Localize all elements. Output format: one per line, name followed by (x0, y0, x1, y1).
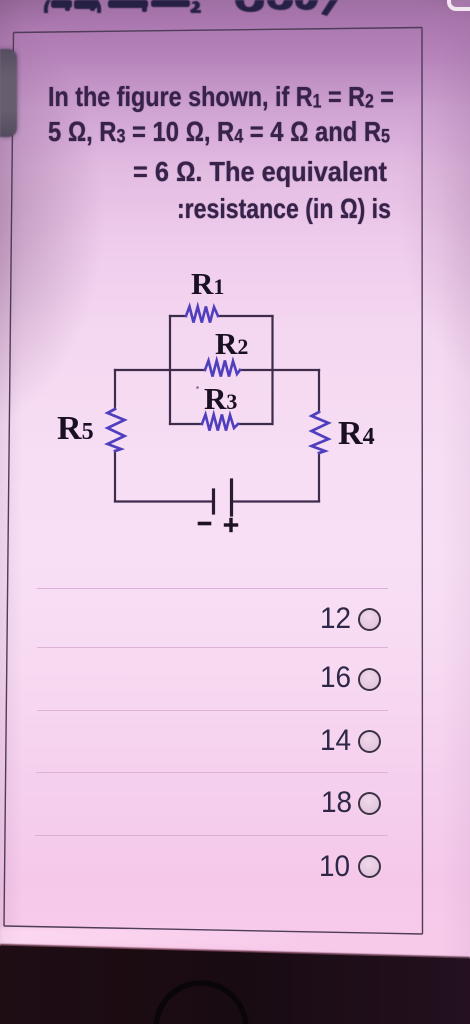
resistor R1 zigzag (186, 307, 218, 323)
resistor R5 zigzag (vertical) (108, 409, 125, 451)
right paren fragment (94, 0, 101, 13)
svg-text:R2: R2 (215, 326, 248, 361)
arabic word hump 2 (267, 0, 293, 10)
tick 1 (65, 0, 70, 11)
gray side tab (0, 49, 17, 137)
bottom phone bezel (0, 940, 470, 1024)
tick 2 (90, 0, 95, 11)
divider 3 (37, 710, 388, 711)
answer options (0, 0, 470, 1)
option 18 (321, 788, 352, 818)
option 12 (320, 604, 351, 634)
wire: bottom box branch after R3 (238, 423, 273, 425)
slash (321, 0, 338, 16)
svg-text:R3: R3 (204, 381, 237, 416)
option 16 (320, 663, 351, 693)
wire: left bus of parallel box (169, 316, 171, 424)
wire: right branch below R4 (318, 453, 320, 501)
wire: middle horizontal right of R2 (240, 369, 319, 371)
svg-text:R4: R4 (338, 415, 375, 452)
bar glyph 2 (74, 0, 97, 9)
wire: bottom box branch to R3 (170, 423, 202, 425)
left paren fragment (44, 0, 51, 13)
wire: right bus of parallel box (271, 316, 273, 424)
divider 4 (36, 772, 388, 773)
bezel body (0, 946, 470, 1024)
wire: middle horizontal left of R2 (115, 369, 205, 371)
bar glyph 4 (151, 0, 190, 7)
resistor R3 zigzag (202, 415, 238, 431)
bar glyph 1 (51, 0, 72, 8)
wire: top branch to R1 (170, 315, 186, 317)
battery positive plate (long) (230, 480, 233, 515)
card right border (421, 28, 424, 935)
battery minus sign (200, 522, 210, 526)
home button ring (156, 983, 246, 1024)
wire: bottom left to battery (115, 500, 211, 502)
bar glyph 3 (108, 0, 148, 8)
resistor R4 zigzag (vertical) (312, 412, 329, 453)
option 14 (320, 726, 351, 756)
arabic word hump 1 (235, 0, 264, 12)
card left border (4, 33, 14, 927)
bezel edge highlight line (0, 0, 1, 1)
wire: right branch down to R4 (318, 370, 320, 412)
top-right white cut-off box (447, 0, 470, 11)
divider 5 (35, 835, 388, 836)
wire: left branch below R5 (114, 451, 116, 501)
wire: left branch down to R5 (114, 370, 116, 409)
digit 2 fragment (190, 1, 201, 13)
card top border (14, 28, 423, 33)
resistor R2 zigzag (205, 361, 240, 377)
bright pink glow above bezel (0, 928, 330, 945)
top cut-off Arabic header text fragments (0, 0, 470, 40)
problem statement text (48, 83, 394, 117)
arabic word hump 3 (295, 0, 318, 10)
divider 1 (37, 588, 388, 589)
tick 3 (142, 1, 147, 12)
option 10 (319, 852, 350, 882)
battery negative plate (short) (212, 490, 215, 513)
svg-text:R5: R5 (57, 410, 94, 447)
divider 2 (37, 647, 388, 648)
wire: top branch after R1 (218, 315, 273, 317)
wire: bottom right from battery (234, 500, 320, 502)
battery plus sign (226, 520, 237, 531)
dust speck (196, 386, 199, 389)
card bottom border (4, 926, 423, 934)
svg-text:R1: R1 (191, 266, 224, 301)
